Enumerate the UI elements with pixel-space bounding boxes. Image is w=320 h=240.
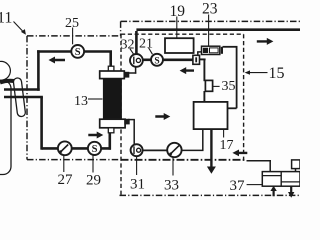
arrow left on top line (49, 38, 295, 198)
wire: gauge 33 up into box 17 (180, 149, 203, 151)
svg-text:29: 29 (86, 173, 101, 189)
wire: drop pipe through 35 into box 17 (203, 59, 205, 82)
wire: valve outlet to drop pipe (200, 58, 206, 60)
node boundary box 11 (dash-dot) (27, 21, 300, 195)
dialyzer 13 top stub (108, 66, 114, 71)
svg-text:S: S (154, 56, 159, 66)
tick 37 (247, 184, 262, 186)
arrow big drain from box 17 (207, 129, 216, 174)
tank inlet box (292, 160, 300, 169)
svg-text:31: 31 (130, 177, 145, 193)
tick 15 (248, 72, 268, 74)
svg-text:32: 32 (121, 38, 135, 53)
arrow left inside box 15 (180, 67, 194, 74)
pointer 11 (14, 22, 25, 33)
tick 17 (223, 130, 225, 138)
svg-text:35: 35 (222, 79, 236, 94)
box 17 (194, 102, 228, 129)
tick 27 (63, 155, 65, 172)
svg-text:27: 27 (58, 172, 74, 188)
arrow down from tank (288, 186, 294, 198)
tank 37 (262, 160, 300, 186)
svg-text:21: 21 (139, 37, 153, 52)
patient arm (13, 78, 25, 117)
arrow up into tank (270, 186, 276, 197)
wire: dialyzer bottom side port to sensor 31 (128, 119, 135, 121)
tick 21 (149, 48, 153, 54)
svg-text:S: S (92, 144, 98, 155)
valve below box 19 (193, 55, 200, 64)
arrow right above pump 29 (88, 132, 103, 139)
dialyzer 13 top side port (124, 72, 129, 78)
dialyzer 13 bottom cap (100, 119, 125, 128)
tick 13 (88, 98, 103, 100)
gauge 33 (167, 143, 181, 157)
dialyzer 13 bottom side port (124, 119, 129, 125)
tick 32 (130, 49, 134, 54)
wire: patient upper blood line (4, 30, 300, 150)
dialyzer 13 body (103, 79, 122, 120)
patient torso (0, 81, 11, 175)
wire: patient lower blood line (4, 96, 43, 99)
wire: pump 21 suction line (143, 58, 151, 61)
svg-text:11: 11 (0, 10, 12, 27)
arrow left at box 15 right edge (232, 150, 247, 157)
dashed box 15 (121, 34, 244, 195)
tick 25 (72, 28, 74, 45)
wire: component 23 to tank 17 (197, 47, 237, 109)
svg-text:23: 23 (202, 1, 218, 18)
wire: dialyzer top side port to valve 32 (128, 67, 296, 172)
svg-text:S: S (75, 47, 81, 58)
sensor 31 (circle with bar and dot) (131, 144, 143, 156)
pump 29 (circle S) (88, 142, 101, 155)
wire: drain line from valve 32 to top right edge (135, 31, 138, 55)
svg-text:37: 37 (230, 178, 246, 194)
arrow right toward box 17 (155, 113, 170, 120)
pump 25 (circle S) (71, 45, 84, 58)
dialyzer 13 top cap (100, 71, 125, 79)
tick 31 (136, 156, 138, 175)
arrow right top drain (257, 38, 274, 45)
svg-text:25: 25 (65, 16, 79, 31)
svg-text:13: 13 (74, 94, 88, 109)
pump 21 (circle S) (151, 54, 163, 67)
tick 19 (176, 17, 178, 39)
svg-text:19: 19 (170, 3, 186, 20)
svg-text:33: 33 (164, 178, 179, 194)
dialyzer 13 bottom stub (108, 128, 114, 133)
arrowhead of pointer 11 (21, 29, 26, 35)
tick 33 (172, 158, 174, 176)
component 35 (205, 80, 212, 91)
heater box 19 (165, 38, 194, 53)
tick 29 (92, 155, 94, 173)
component 23 (202, 46, 224, 54)
tick 35 (213, 85, 220, 87)
valve 32 (circle with bar and dot) (130, 54, 143, 67)
patient head (0, 61, 10, 80)
label lead lines (14, 15, 268, 185)
patient shoulder (0, 81, 18, 83)
gauge 27 (58, 141, 72, 155)
svg-text:17: 17 (220, 138, 234, 153)
tick 23 (208, 15, 210, 47)
wire: tank feed line (247, 160, 272, 162)
wire: valve top stub to 23 (197, 52, 199, 56)
wire: inlet stub (295, 169, 297, 172)
arrowhead of pointer 15 (245, 70, 250, 74)
wire: sensor 31 to gauge 33 (142, 149, 167, 151)
svg-text:15: 15 (269, 65, 285, 82)
